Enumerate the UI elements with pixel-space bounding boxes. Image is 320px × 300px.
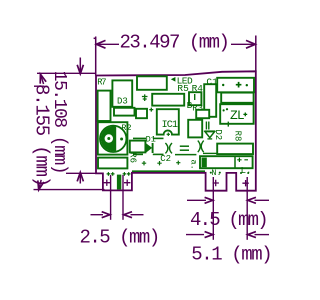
dimension line top right segment (231, 43, 255, 45)
electrolytic capacitor circle (100, 126, 126, 152)
diode bridge bowtie symbol (198, 141, 204, 153)
svg-text:R5: R5 (177, 83, 189, 94)
svg-text:R8: R8 (232, 131, 242, 142)
svg-text:R2: R2 (121, 123, 131, 133)
relay marks (237, 158, 248, 162)
plus mark near IC (149, 108, 153, 112)
extension line left bottom (34, 189, 105, 191)
component box above relay (217, 144, 253, 155)
component box bottom left (98, 158, 127, 169)
arrow 4.5 right (248, 197, 256, 203)
varistor ZL box (220, 104, 253, 124)
svg-text:R7: R7 (97, 77, 106, 87)
diode D2 triangle (205, 132, 215, 138)
component box small center (136, 109, 147, 118)
svg-text:2.5 (mm): 2.5 (mm) (80, 226, 159, 248)
wire left upper (133, 137, 146, 139)
pin bar green (117, 175, 121, 190)
capacitor C1 leads (205, 122, 207, 130)
resistor R3 body (188, 120, 202, 138)
ZL dots (223, 109, 225, 111)
svg-text:D1: D1 (146, 134, 156, 144)
svg-text:C2: C2 (160, 154, 171, 164)
op-amp U1 / IC1 body (157, 109, 179, 134)
wire left lower (133, 153, 143, 155)
diode D2 anode bar (204, 130, 215, 132)
relay box divider (234, 156, 236, 168)
svg-text:R4: R4 (192, 83, 204, 94)
svg-text:IC1: IC1 (162, 120, 178, 131)
component box top center (152, 94, 184, 106)
wire stub right (203, 152, 218, 154)
component box mid right (196, 110, 209, 118)
extension line pin N (212, 177, 214, 240)
electrolytic capacitor minus dot (120, 138, 123, 141)
ZL plus mark (243, 113, 247, 117)
terminal block top right (217, 78, 254, 93)
extension line pin1 (110, 175, 112, 220)
component box top left (137, 76, 167, 90)
pad dots L (240, 172, 242, 174)
dimension top extension left (95, 37, 97, 76)
dimension top extension right (255, 36, 257, 72)
electrolytic capacitor ring (105, 134, 113, 142)
capacitor C1 body (204, 84, 216, 117)
svg-text:L.: L. (241, 166, 252, 176)
capacitor C3 square (98, 122, 128, 154)
svg-text:D2: D2 (213, 129, 223, 140)
diode D2 cathode bar (207, 138, 212, 140)
capacitor C2 bowtie symbol (165, 143, 172, 153)
arrowhead top left (96, 40, 105, 48)
pad dots left tab (107, 172, 115, 176)
pin cross N (213, 180, 219, 186)
pad dots N (210, 172, 212, 174)
extension line left mid (66, 172, 102, 174)
board outline (96, 71, 256, 190)
LED arrow (171, 77, 176, 82)
svg-text:R3: R3 (192, 103, 203, 113)
arrow 8.155 top (37, 73, 46, 85)
extension line pin L (246, 177, 248, 240)
dimension top extension left hook (94, 37, 96, 39)
tick 8.155 (34, 85, 45, 87)
arrowhead top right (246, 40, 255, 48)
component box right of cap (130, 141, 146, 153)
solder pad plus marks (142, 161, 146, 165)
polarity mark small arrow 3 (227, 122, 229, 127)
arrow 4.5 left (187, 199, 206, 201)
diode D1 symbol (146, 143, 152, 152)
arrow 2.5 right (124, 212, 132, 218)
svg-text:5.1 (mm): 5.1 (mm) (191, 243, 271, 265)
relay box polarity bar (202, 158, 207, 168)
svg-text:23.497 (mm): 23.497 (mm) (120, 31, 229, 53)
pin cross L (242, 180, 248, 186)
component box right (221, 93, 253, 103)
svg-text:8.155 (mm): 8.155 (mm) (30, 84, 52, 186)
arrow 15.108 top (79, 58, 81, 74)
polarity mark small arrow 1 (142, 94, 148, 101)
svg-text:4.5 (mm): 4.5 (mm) (190, 209, 267, 231)
diode D1 cathode bar (152, 143, 154, 153)
extension line pin2 (122, 175, 124, 220)
jumper marks (180, 145, 189, 147)
resistor R7 body (98, 91, 111, 121)
resistor R4 body (189, 92, 201, 105)
arrow 15.108 bottom (77, 172, 83, 181)
terminal block marks (222, 84, 224, 86)
diode D3 body (112, 80, 132, 106)
wire right upper (153, 137, 164, 139)
dimension line top left segment (97, 43, 119, 45)
polarity mark small arrow 2 (194, 94, 196, 100)
svg-text:a.: a. (188, 160, 198, 170)
svg-text:ZL: ZL (230, 108, 244, 123)
pin cross 1 (104, 180, 110, 186)
relay box bottom right (200, 156, 253, 168)
svg-text:C1: C1 (206, 76, 218, 87)
arrow 5.1 left (186, 234, 204, 236)
component box under D3 (114, 108, 135, 116)
arrow 8.155 bottom (36, 179, 45, 190)
wire right lower (153, 153, 164, 155)
arrow 5.1 right (248, 232, 256, 238)
electrolytic capacitor dot (107, 137, 110, 140)
arrow 2.5 left (91, 214, 104, 216)
pin cross 2 (124, 180, 130, 186)
svg-text:D3: D3 (117, 97, 128, 107)
wire to relay upper (175, 154, 196, 156)
svg-text:R6: R6 (127, 152, 137, 163)
extension line left top (37, 72, 96, 74)
bottom silk edge line (132, 170, 205, 172)
plus mark IC notch (167, 133, 170, 136)
